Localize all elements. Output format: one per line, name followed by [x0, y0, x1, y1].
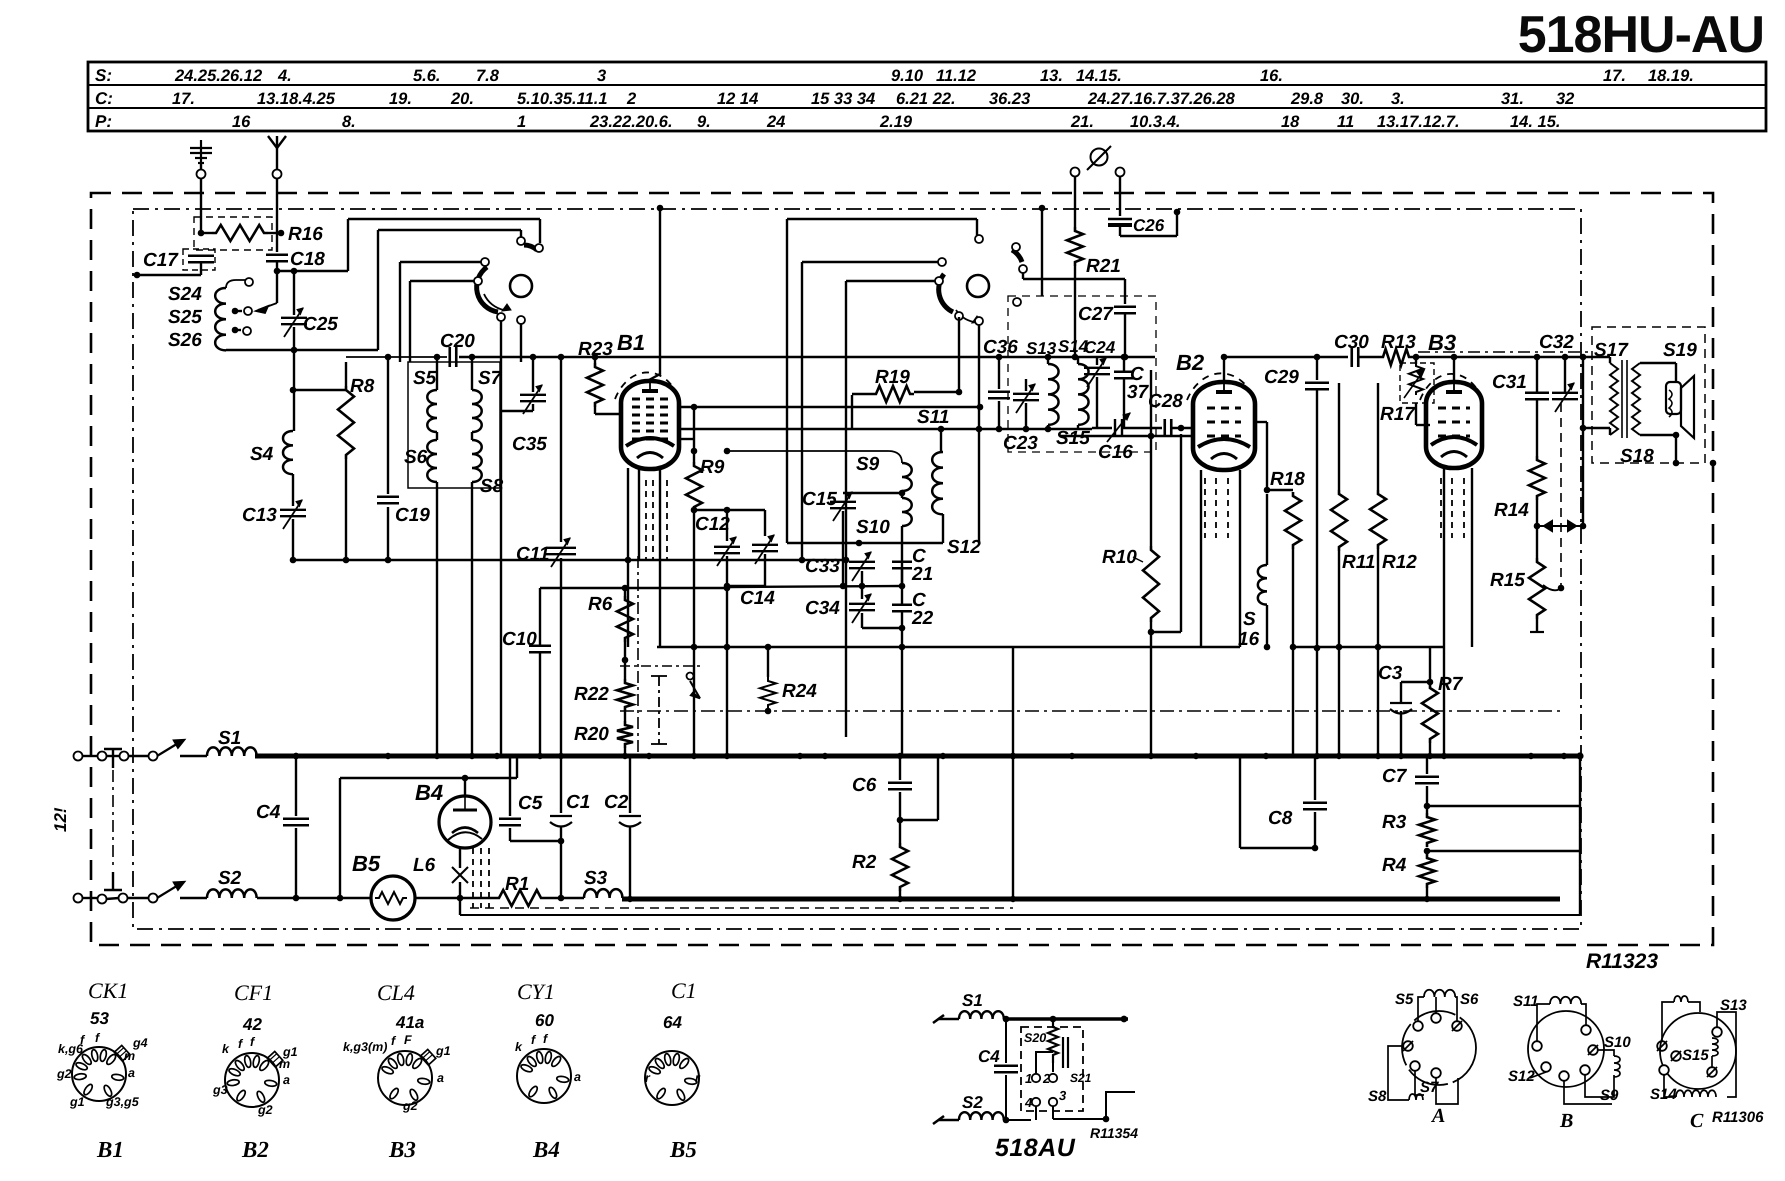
svg-text:B3: B3 [388, 1137, 416, 1162]
svg-text:17.: 17. [1603, 67, 1626, 85]
switch2 contact a [975, 235, 983, 243]
svg-text:R11323: R11323 [1586, 950, 1658, 973]
bus junction [494, 753, 500, 759]
wire S10 down [901, 526, 903, 586]
svg-text:C26: C26 [1133, 216, 1165, 235]
wire aux S1 lead [938, 1018, 959, 1021]
variable capacitor C13 [280, 500, 306, 529]
wire C1 down [560, 827, 562, 898]
capacitor C36 [988, 392, 1010, 399]
mains terminal 3 [120, 752, 129, 761]
wire B2 anode pin lead [1239, 470, 1241, 647]
resistor R15 [1529, 558, 1545, 619]
mains terminal 6 [98, 895, 107, 904]
resistor R19 [872, 386, 914, 402]
svg-text:C7: C7 [1382, 766, 1408, 787]
junction [293, 895, 300, 902]
svg-text:S2: S2 [962, 1093, 983, 1112]
bus junction [1193, 753, 1199, 759]
wire C7 link [1427, 805, 1580, 807]
wire down to can [399, 262, 401, 362]
svg-text:13.: 13. [1040, 67, 1063, 85]
bus junction [797, 753, 803, 759]
svg-text:R20: R20 [574, 724, 609, 745]
svg-text:S7: S7 [478, 368, 503, 389]
resistor R3 [1419, 813, 1435, 847]
junction border top [1039, 205, 1046, 212]
wire R9 down [693, 511, 695, 756]
wire S2 to B5 [257, 897, 371, 899]
junction [291, 268, 298, 275]
svg-text:g2: g2 [402, 1099, 418, 1113]
wire C19 down [387, 507, 389, 560]
wire cathode rail y647 [657, 646, 1240, 648]
wire link riser [937, 756, 939, 820]
wire terminal3 down [1052, 1106, 1054, 1119]
svg-text:16: 16 [1238, 629, 1260, 650]
wire [594, 357, 596, 363]
svg-text:S2: S2 [218, 868, 242, 889]
wire S7 top [471, 357, 473, 390]
mains terminal 7 [119, 894, 128, 903]
wire S20 tail [1052, 1063, 1054, 1072]
wire C6 top [899, 756, 901, 780]
coil S11 link [1550, 997, 1581, 1004]
mains terminal 5 [74, 894, 83, 903]
junction [938, 426, 945, 433]
junction [799, 557, 806, 564]
svg-text:C16: C16 [1098, 442, 1133, 463]
switch contact [687, 673, 694, 680]
wire R13 to B3 [1413, 356, 1454, 358]
wafer B pin 1 [1532, 1041, 1542, 1051]
switch2 contact f [1013, 298, 1021, 306]
svg-text:S:: S: [95, 66, 112, 85]
heater bus junction [1424, 896, 1430, 902]
coil S2 aux [959, 1112, 1004, 1120]
scale lamp L6 [452, 867, 468, 883]
wire B2 cathode pin lead [1200, 470, 1202, 647]
svg-text:S13: S13 [1026, 339, 1057, 358]
svg-text:C3: C3 [1378, 663, 1403, 684]
junction [337, 895, 344, 902]
wire C29 top [1316, 357, 1318, 380]
wire to C12 [694, 509, 727, 511]
wire R20 down [624, 748, 626, 756]
bus junction [1375, 753, 1381, 759]
capacitor C21 [892, 562, 912, 569]
wire C29 down [1316, 390, 1318, 756]
wire C3 down [1400, 711, 1402, 756]
wire C15 tap [843, 492, 902, 494]
svg-text:g1: g1 [69, 1095, 85, 1109]
wire S8 down [471, 482, 473, 756]
svg-text:R19: R19 [875, 367, 910, 388]
svg-text:R23: R23 [578, 339, 613, 360]
coil S12 [932, 452, 943, 514]
wire [861, 613, 863, 628]
resistor R11 [1331, 490, 1347, 551]
aux HT wire [1004, 1017, 1128, 1021]
wire HT riser [1582, 357, 1584, 526]
switch2 contact e [1019, 265, 1027, 273]
wire C8 top [1314, 756, 1316, 800]
wire R23 to B1 grid [595, 413, 623, 415]
wire [1675, 363, 1677, 382]
jack terminal 2 [1116, 168, 1125, 177]
junction [1045, 354, 1052, 361]
heater bus wire y899 [622, 897, 1560, 902]
svg-text:R18: R18 [1270, 469, 1305, 490]
svg-text:17.: 17. [172, 90, 195, 108]
wire R24 top [767, 647, 769, 677]
junction [843, 557, 850, 564]
svg-text:C2: C2 [604, 792, 629, 813]
svg-text:C10: C10 [502, 629, 537, 650]
wire [1123, 357, 1125, 371]
junction [1290, 644, 1297, 651]
svg-text:64: 64 [663, 1013, 682, 1032]
svg-text:C33: C33 [805, 556, 840, 577]
svg-text:S18: S18 [1620, 446, 1654, 467]
electrolytic capacitor C3 [1390, 703, 1412, 714]
wire R19 riser [958, 317, 960, 392]
wafer B pin 2 [1541, 1062, 1551, 1072]
svg-text:S: S [1243, 609, 1256, 630]
junction [293, 753, 300, 760]
capacitor C20 [450, 347, 457, 367]
wire jack to R21 [1074, 176, 1076, 227]
svg-text:R17: R17 [1380, 404, 1416, 425]
heater bus junction [1010, 896, 1016, 902]
bus junction [293, 753, 299, 759]
wire C28 to B2 grid [1172, 427, 1194, 429]
wire B5 to R1 [415, 897, 495, 899]
svg-text:S14: S14 [1650, 1086, 1677, 1103]
junction grid rail [977, 404, 984, 411]
bus junction [1314, 753, 1320, 759]
wire antenna lead [276, 178, 278, 252]
bus end junction [1576, 752, 1583, 759]
capacitor C6 [888, 783, 912, 790]
capacitor C37 [1114, 372, 1134, 379]
svg-text:16: 16 [232, 113, 251, 131]
wire C34-C22 bottom [862, 627, 902, 629]
svg-text:C29: C29 [1264, 367, 1299, 388]
coil S13 [1048, 364, 1059, 425]
wire B1 pin lead c [659, 468, 661, 647]
bus junction [724, 753, 730, 759]
wire C23 down [1025, 403, 1027, 429]
resistor R8 [338, 386, 354, 459]
wire run to switch1 top [378, 229, 521, 231]
gramophone jack [1087, 146, 1111, 170]
switch1 contact b [535, 244, 543, 252]
mains switch lever top [157, 740, 184, 756]
junction [765, 644, 772, 651]
wire R6 top [624, 588, 626, 596]
wire C27 top [1124, 279, 1126, 304]
wire C3 top [1400, 682, 1402, 703]
switch1 contact c [481, 258, 489, 266]
wire C6 link [900, 819, 938, 821]
svg-text:m: m [279, 1057, 290, 1071]
dashed box around C17 [183, 249, 215, 270]
svg-text:9.10: 9.10 [891, 67, 924, 85]
svg-text:S15: S15 [1682, 1047, 1709, 1064]
coil S8-S7 link [1409, 1094, 1423, 1100]
wire C7 top [1426, 756, 1428, 774]
wire to R18 [1266, 422, 1268, 490]
tube socket CK1 [72, 1047, 126, 1101]
junction [1314, 645, 1321, 652]
bus junction [897, 753, 903, 759]
junction [1221, 354, 1228, 361]
wire R17 down [1415, 403, 1417, 425]
svg-text:C20: C20 [440, 331, 475, 352]
svg-text:518AU: 518AU [995, 1134, 1076, 1162]
variable capacitor C24 [1084, 358, 1110, 387]
svg-text:30.: 30. [1341, 90, 1364, 108]
tube B2 pin leads [1205, 478, 1228, 538]
svg-text:C36: C36 [983, 337, 1018, 358]
tube B4 [439, 796, 491, 848]
wire top run to switch2 [787, 218, 977, 220]
IF can box S5-S8 [408, 362, 500, 488]
capacitor C5 [499, 819, 521, 826]
svg-text:m: m [124, 1049, 135, 1063]
junction [469, 354, 476, 361]
heater dashed pair [470, 907, 1013, 909]
svg-text:R16: R16 [288, 224, 323, 245]
wire B3 cathode drop [1443, 468, 1445, 647]
svg-text:S26: S26 [168, 330, 202, 351]
switch1 contact d [474, 277, 482, 285]
junction [290, 387, 297, 394]
wire osc rail b [845, 281, 847, 737]
svg-text:k: k [515, 1040, 523, 1054]
svg-text:B1: B1 [617, 330, 645, 355]
svg-text:R6: R6 [588, 594, 613, 615]
junction [1580, 523, 1587, 530]
svg-text:A: A [1430, 1105, 1445, 1127]
junction speaker return [1673, 460, 1680, 467]
tube B2 [1187, 373, 1255, 470]
coil S13 link dashed [1674, 996, 1688, 1002]
coil S8 [472, 440, 482, 482]
wafer B circle [1528, 1011, 1604, 1087]
electrolytic capacitor C2 [619, 816, 641, 827]
wire [1123, 379, 1125, 429]
resistor R1 [495, 890, 545, 906]
wire L6 to return [459, 898, 461, 915]
svg-text:CY1: CY1 [517, 979, 555, 1004]
svg-text:4.: 4. [277, 67, 292, 85]
wire B4 top cap [464, 778, 466, 796]
svg-text:29.8: 29.8 [1290, 90, 1324, 108]
svg-text:31.: 31. [1501, 90, 1524, 108]
wire to S1 [180, 755, 207, 757]
junction [198, 230, 205, 237]
variable capacitor C16 [1107, 413, 1130, 442]
svg-text:B1: B1 [96, 1137, 124, 1162]
junction [1312, 845, 1319, 852]
wire border to osc box [1041, 208, 1043, 296]
bus junction [940, 753, 946, 759]
svg-text:C8: C8 [1268, 808, 1293, 829]
junction at C18 top [278, 230, 285, 237]
mains terminal 4 [149, 752, 158, 761]
wire C12 bottom [726, 556, 728, 586]
capacitor C7 [1415, 777, 1439, 784]
gang linkage dash-dot line [620, 710, 1560, 712]
junction [691, 404, 698, 411]
wire R17 top stub [1415, 357, 1417, 364]
wafer C pin 4 slashed [1707, 1067, 1717, 1077]
svg-text:S10: S10 [1604, 1034, 1631, 1051]
wire [861, 571, 863, 586]
svg-text:a: a [128, 1066, 135, 1080]
wire switch1 top drop [520, 230, 522, 237]
switch1 contact a [517, 237, 525, 245]
wire C2 top [629, 756, 631, 813]
svg-text:2.19: 2.19 [879, 113, 913, 131]
svg-text:S5: S5 [1395, 991, 1414, 1008]
junction [1413, 354, 1420, 361]
speaker S19 [1666, 376, 1694, 438]
svg-text:12!: 12! [51, 807, 70, 832]
wire C3-R7 link [1401, 681, 1430, 683]
svg-text:13.18.4.25: 13.18.4.25 [257, 90, 336, 108]
dashed box oscillator section [1008, 296, 1156, 452]
svg-text:C19: C19 [395, 505, 430, 526]
svg-text:C17: C17 [143, 250, 179, 271]
svg-text:S11: S11 [1513, 993, 1539, 1010]
wire C4 down [295, 828, 297, 898]
svg-text:C25: C25 [303, 314, 338, 335]
capacitor C4 [283, 819, 309, 826]
svg-text:20.: 20. [450, 90, 474, 108]
resistor R12 [1370, 490, 1386, 549]
coil S16 [1258, 565, 1267, 605]
aux terminal 2 [1049, 1074, 1057, 1082]
wire top run to wave switch [348, 218, 540, 220]
wire C10 to R6 top [540, 587, 727, 589]
svg-text:36.23: 36.23 [989, 90, 1030, 108]
wire osc rail a [801, 262, 803, 560]
svg-text:S1: S1 [218, 728, 241, 749]
wire [1077, 425, 1079, 429]
wire switch1 to can c [520, 324, 522, 362]
wafer C pin S15 slashed [1671, 1051, 1681, 1061]
mains choke S1 [207, 747, 257, 756]
wafer C wiring [1662, 1002, 1736, 1097]
wire down to S4 [293, 350, 295, 431]
junction R24 linkage [765, 708, 772, 715]
bus junction [622, 753, 628, 759]
junction [1580, 425, 1587, 432]
junction [462, 775, 469, 782]
coil S1 aux [959, 1011, 1004, 1019]
junction [956, 389, 963, 396]
aux stub [933, 1015, 944, 1023]
coil S10 [902, 498, 912, 526]
switch1 contact e [497, 313, 505, 321]
table frame [88, 62, 1766, 131]
junction [1003, 1117, 1010, 1124]
wire [1047, 425, 1049, 429]
mains plug dash-dot link [112, 770, 114, 870]
aux terminal 4 [1032, 1098, 1040, 1106]
capacitor C22 [892, 605, 912, 612]
svg-text:C24: C24 [1084, 338, 1116, 357]
svg-text:R13: R13 [1381, 332, 1416, 353]
variable capacitor C34 [849, 594, 875, 623]
junction [290, 557, 297, 564]
wire C32 top [1564, 357, 1566, 392]
wire C26 link [1120, 235, 1177, 237]
tube socket 42 [225, 1053, 279, 1107]
svg-text:S12: S12 [1508, 1068, 1535, 1085]
wire [1609, 428, 1611, 435]
junction [1336, 644, 1343, 651]
wire B1 anode riser [649, 208, 660, 380]
svg-text:3.: 3. [1391, 90, 1405, 108]
wire B1 S11 line to oscillator [679, 428, 1092, 430]
tube B3 [1420, 374, 1482, 468]
svg-text:C: C [1690, 1110, 1704, 1132]
wire C35 top [532, 357, 534, 392]
wire S4 tap to R8 [293, 389, 346, 391]
svg-text:S3: S3 [584, 868, 608, 889]
svg-text:S5: S5 [413, 368, 437, 389]
svg-text:R3: R3 [1382, 812, 1407, 833]
junction [558, 895, 565, 902]
wire B1 pin lead b [638, 468, 640, 560]
wire trimmer drop [726, 588, 728, 756]
coil S14 [1078, 364, 1089, 425]
antenna terminal [273, 170, 282, 179]
svg-text:S1: S1 [962, 991, 983, 1010]
capacitor C26 [1108, 219, 1132, 225]
junction [1178, 425, 1185, 432]
junction [1121, 354, 1128, 361]
wire [901, 612, 903, 628]
wire R4 down [1426, 888, 1428, 899]
svg-text:C6: C6 [852, 775, 877, 796]
wire C18 to C25 [293, 271, 295, 315]
wire B2 anode rail [1224, 356, 1348, 358]
switch1 contact f [517, 316, 525, 324]
coil S4 [283, 431, 293, 474]
resistor R23 [587, 363, 603, 407]
dashed box around R16 [194, 217, 272, 250]
svg-text:S15: S15 [1056, 428, 1090, 449]
junction [1148, 629, 1155, 636]
junction [1424, 848, 1431, 855]
svg-text:4: 4 [1024, 1095, 1033, 1110]
coil S7 [472, 390, 482, 432]
svg-text:C27: C27 [1078, 304, 1114, 325]
aux dashed box [1021, 1027, 1083, 1111]
wire [201, 232, 212, 234]
svg-text:B2: B2 [1176, 350, 1205, 375]
svg-text:R11354: R11354 [1090, 1125, 1138, 1141]
oscillator can corner [728, 451, 902, 463]
resistor R13 [1379, 349, 1413, 365]
switch2 contact d [1012, 243, 1020, 251]
wire aux bottom [1004, 1119, 1031, 1121]
